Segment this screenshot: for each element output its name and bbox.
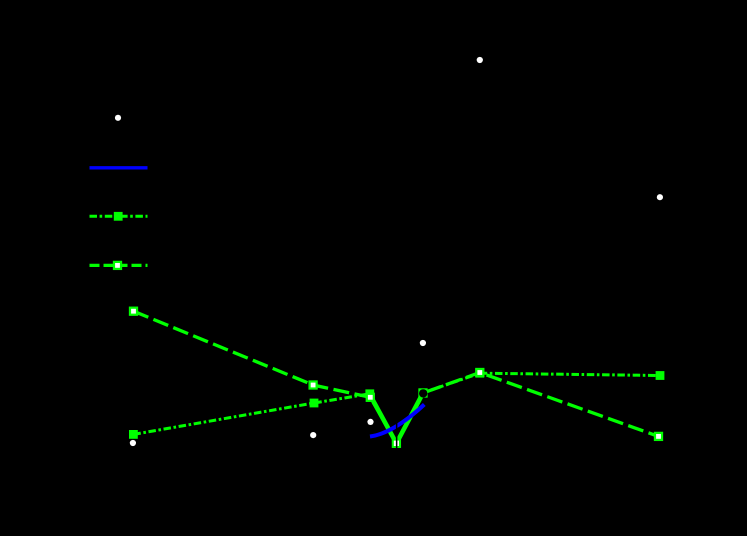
blue data curve [370,405,424,437]
solid underlay for V-dip legs [370,393,423,443]
legend: green dash-dot entry [90,215,148,218]
black circle marker over green [419,389,427,397]
scattered white dots [130,57,663,446]
green dash-dot series line (solid square markers) [133,373,660,443]
legend: green dashed entry [90,264,148,267]
legend: white dot entry [115,115,121,121]
green dashed series line (white-faced square markers) [134,311,659,443]
legend: blue line entry [90,166,148,169]
dashed series white-faced square markers [129,307,663,448]
dash-dot series solid square markers [129,369,664,448]
black vertical line artifact [396,404,398,450]
